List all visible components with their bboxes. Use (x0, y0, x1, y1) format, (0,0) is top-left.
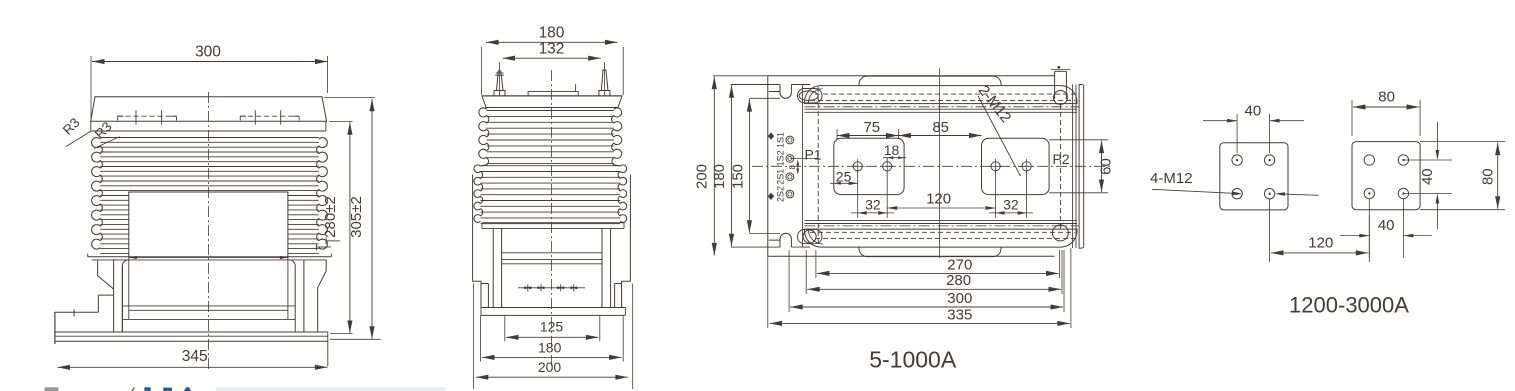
top view corner hole bottom-left (oval) (798, 229, 823, 243)
svg-text:280: 280 (946, 272, 971, 289)
svg-text:2S2: 2S2 (776, 186, 786, 202)
svg-text:R3: R3 (60, 115, 83, 138)
side view shoulder transition (481, 158, 489, 166)
top view secondary terminal wall (802, 85, 804, 248)
svg-text:P1: P1 (804, 146, 821, 162)
front view cap dashed detail left (118, 115, 177, 117)
svg-text:2S1: 2S1 (776, 169, 786, 185)
svg-text:40: 40 (1419, 168, 1436, 185)
svg-text:75: 75 (863, 119, 880, 136)
side view centerline (551, 70, 553, 374)
dim 200 (side bottom) (473, 284, 475, 390)
svg-text:5-1000A: 5-1000A (869, 347, 957, 373)
dim 120 (top view) (887, 207, 995, 209)
front view centerline (208, 92, 210, 372)
dim 60 (top view right) (1049, 139, 1108, 141)
dim 150 (top view left) (749, 97, 780, 99)
dim 40 (large plate bottom) (1368, 199, 1370, 258)
dim 75 (top view) (836, 129, 838, 139)
dim 200 (top view left) (713, 75, 768, 77)
svg-text:80: 80 (1480, 168, 1497, 185)
top view corner hole top-right (1053, 91, 1067, 105)
svg-text:25: 25 (836, 169, 852, 185)
dim 80 (large plate far right) (1420, 141, 1505, 143)
dim 85 (top view) (898, 135, 981, 137)
svg-text:125: 125 (540, 319, 564, 335)
top view vertical centerline (938, 68, 940, 258)
svg-text:40: 40 (1378, 217, 1395, 234)
top view bottom-left corner notch (769, 240, 780, 247)
top view top cover bump (859, 76, 1001, 86)
side view lower fins (481, 165, 621, 167)
cut-off blue glyph 2 (163, 388, 172, 391)
dim 280 (top view bottom) (805, 250, 807, 294)
front view window width line with arrows (129, 257, 288, 259)
svg-text:200: 200 (694, 164, 711, 189)
top view inner bottom edge (731, 246, 780, 248)
svg-text:335: 335 (947, 306, 972, 323)
front view fin stack (100, 137, 319, 139)
side view nameplate strip on cap (528, 91, 578, 96)
front view left bracket (98, 260, 114, 289)
side view base plate (481, 307, 625, 309)
top view outer body (767, 76, 769, 256)
top view right-top chimney tab (1054, 71, 1056, 99)
front view right legs (294, 266, 296, 332)
side view legs (492, 229, 494, 308)
svg-text:180: 180 (539, 25, 565, 42)
cut-off blue glyph 3 (184, 387, 191, 391)
svg-text:40: 40 (1245, 102, 1262, 119)
dim 305±2 (front right) (324, 97, 375, 99)
front view base plate (55, 331, 328, 333)
svg-text:200: 200 (538, 359, 562, 375)
side view upper fins (487, 110, 614, 112)
top view top-left corner notch (769, 85, 780, 92)
front view: cap (top cover) (91, 97, 327, 122)
top view corner hole top-left (oval) (798, 89, 823, 103)
svg-text:80: 80 (1378, 89, 1395, 106)
top view right pad with holes (982, 138, 1050, 194)
top view terminal circles 1S1 1S2 2S1 2S2 (786, 136, 794, 144)
dim 125 (side bottom) (504, 315, 506, 341)
side view right terminal stud (599, 70, 610, 96)
front view left bracket bolt tick (73, 309, 75, 316)
top view top-left mounting slot (780, 85, 791, 99)
top view left pad with holes (834, 138, 904, 194)
dim 18 (top view) (886, 158, 888, 163)
dim 345 (front bottom) (57, 366, 327, 368)
side view cross lines (502, 252, 602, 254)
top view bottom cover bump (859, 247, 1001, 257)
dim 32 right (top view) (1026, 171, 1028, 218)
top view terminal diamonds (768, 132, 774, 139)
front view cap dashed detail right (240, 115, 299, 117)
svg-text:8: 8 (788, 165, 797, 170)
side view cap (482, 96, 622, 108)
dim 25 (top view) (830, 182, 858, 184)
cut-off slash mark (131, 387, 135, 391)
svg-text:1S2: 1S2 (776, 150, 786, 166)
svg-text:32: 32 (865, 197, 881, 213)
dim 180 (side top) (481, 47, 483, 95)
top view bottom-left mounting slot (780, 233, 791, 247)
dim 40 (large plate right) (1403, 159, 1452, 161)
dim 335 (top view bottom) (767, 256, 769, 328)
dim 132 (side top) (498, 62, 500, 96)
top view horizontal centerline (752, 165, 1112, 167)
dim 40 (small plate top) (1236, 114, 1238, 153)
terminal plate large (80x80) (1352, 142, 1420, 210)
front view core window (129, 192, 288, 257)
top view right side cover edges (1072, 85, 1074, 249)
top view inner top edge (731, 84, 780, 86)
top view top band (busbar cover) (805, 86, 1078, 104)
dim 180 (side bottom) (480, 315, 482, 361)
svg-text:18: 18 (884, 142, 900, 158)
top view dashed walls (817, 87, 819, 246)
front view fin-bottom plate (88, 256, 332, 258)
svg-text:270: 270 (947, 256, 972, 273)
dim 32 left (top view) (857, 171, 859, 218)
svg-text:32: 32 (1003, 197, 1019, 213)
svg-text:345: 345 (182, 348, 208, 365)
svg-text:4-M12: 4-M12 (1150, 170, 1193, 187)
front view left legs (113, 260, 115, 332)
svg-text:2-M12: 2-M12 (975, 82, 1015, 126)
dim 120 (plates bottom) (1269, 199, 1271, 262)
svg-text:120: 120 (1308, 234, 1333, 251)
dim 280±2 (front right) (329, 121, 353, 123)
dim 300 (front top) (90, 56, 92, 119)
dim 80 (large plate top) (1351, 100, 1353, 136)
light gray bar (216, 387, 446, 391)
svg-text:150: 150 (730, 164, 747, 189)
fin tip reference crosses (326, 240, 340, 242)
svg-text:280±2: 280±2 (322, 196, 339, 238)
svg-text:300: 300 (195, 44, 221, 61)
svg-text:180: 180 (538, 339, 562, 355)
small gap dim near P1 (797, 162, 799, 173)
svg-text:120: 120 (926, 191, 951, 208)
cut-off blue glyph 1 (144, 387, 151, 391)
front view lower body lines (122, 305, 295, 307)
svg-text:300: 300 (947, 290, 972, 307)
cut-off heading letter block (45, 387, 59, 391)
front view right bracket (318, 260, 327, 332)
dim 270 (top view bottom) (815, 250, 817, 278)
svg-text:180: 180 (711, 164, 728, 189)
side view fin-bottom plate (482, 222, 624, 224)
front view cap sub-plate line (91, 130, 326, 132)
svg-text:1S1: 1S1 (776, 132, 786, 148)
dim 300 (top view bottom) (788, 250, 790, 312)
side view skirt outer (472, 174, 474, 281)
top view bottom band (busbar cover) (805, 229, 1078, 247)
dim 180 (top view left) (731, 84, 768, 86)
svg-text:305±2: 305±2 (348, 196, 365, 238)
svg-text:60: 60 (1098, 158, 1115, 175)
side view left terminal stud (494, 71, 505, 96)
side view terminal strip with bolts (518, 287, 585, 289)
svg-text:P2: P2 (1052, 151, 1069, 167)
top view corner hole bottom-right (1052, 225, 1068, 241)
svg-text:132: 132 (539, 41, 565, 58)
svg-text:85: 85 (932, 119, 949, 136)
terminal plate small (40x40 holes) (1220, 143, 1288, 210)
svg-text:1200-3000A: 1200-3000A (1289, 293, 1409, 318)
